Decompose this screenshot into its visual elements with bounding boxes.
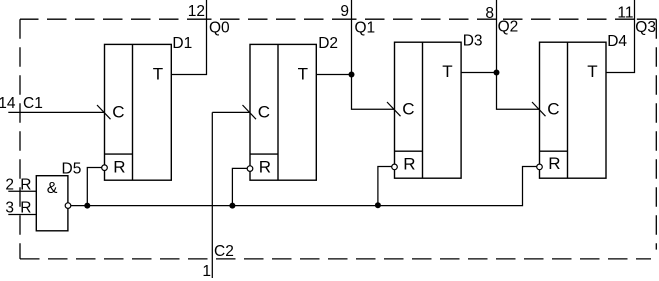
svg-text:C: C — [258, 103, 270, 122]
svg-text:&: & — [47, 180, 58, 197]
svg-text:T: T — [153, 65, 163, 84]
svg-text:C: C — [547, 100, 559, 119]
svg-text:D2: D2 — [318, 35, 338, 52]
svg-text:14: 14 — [0, 95, 16, 112]
svg-text:D3: D3 — [463, 33, 483, 50]
svg-text:T: T — [298, 65, 308, 84]
svg-text:11: 11 — [617, 4, 633, 21]
svg-text:R: R — [548, 154, 560, 173]
svg-text:R: R — [20, 176, 31, 193]
svg-text:R: R — [113, 158, 125, 177]
svg-text:Q1: Q1 — [355, 20, 376, 37]
svg-text:D5: D5 — [62, 161, 82, 178]
svg-text:R: R — [259, 158, 271, 177]
svg-text:1: 1 — [202, 263, 211, 280]
svg-text:3: 3 — [5, 199, 14, 216]
svg-text:2: 2 — [5, 176, 14, 193]
svg-text:Q2: Q2 — [498, 18, 519, 35]
svg-text:C: C — [402, 100, 414, 119]
svg-text:D4: D4 — [607, 33, 627, 50]
svg-text:D1: D1 — [172, 35, 192, 52]
svg-text:12: 12 — [188, 3, 205, 20]
svg-text:T: T — [442, 62, 452, 81]
svg-text:C: C — [112, 103, 124, 122]
svg-text:T: T — [587, 62, 597, 81]
svg-text:C1: C1 — [23, 95, 43, 112]
svg-text:8: 8 — [485, 5, 494, 22]
svg-text:Q3: Q3 — [635, 19, 656, 36]
svg-text:C2: C2 — [214, 243, 234, 260]
svg-text:9: 9 — [340, 3, 349, 20]
svg-text:R: R — [403, 155, 415, 174]
svg-text:Q0: Q0 — [209, 19, 230, 36]
svg-text:R: R — [20, 199, 31, 216]
